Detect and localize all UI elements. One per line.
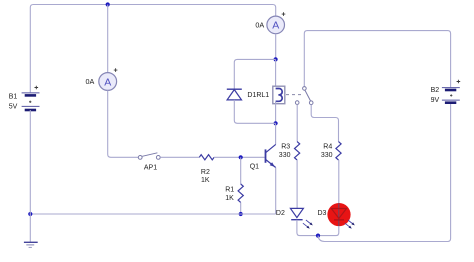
wire R4 to LED D3 [338,160,340,203]
resistor R2 1K [199,155,214,184]
wire coil bottom node to Q1 collector [275,123,277,144]
svg-text:R2: R2 [201,169,210,176]
LED D3 (lit red) [318,203,355,229]
wire ground rail [30,213,275,215]
svg-text:9V: 9V [431,97,440,104]
switch AP1 [138,153,160,172]
ammeter U1 (0A) [86,68,118,90]
node bottom junction [316,234,320,238]
svg-text:AP1: AP1 [144,165,157,172]
svg-text:B2: B2 [431,87,440,94]
svg-text:B1: B1 [9,93,18,100]
wire relay NO contact to resistor R4 [311,105,338,142]
resistor R4 330 [321,142,341,160]
svg-text:0A: 0A [255,20,264,29]
battery B1 5V [9,86,40,111]
svg-text:D3: D3 [318,210,327,217]
wire node to resistor R1 [240,157,242,184]
transistor Q1 [250,144,276,170]
svg-text:D1RL1: D1RL1 [247,92,269,99]
wire top rail from B1 to ammeter U2 [30,5,275,93]
node coil bottom junction [274,121,278,125]
node top rail junction [106,2,110,6]
svg-text:330: 330 [279,152,291,159]
resistor R1 1K [225,184,243,202]
node R1 bottom junction [239,212,243,216]
wire ammeter U2 bottom to coil node [275,34,277,60]
relay RL1 contact [286,87,313,105]
battery B2 9V [431,80,461,105]
svg-text:Q1: Q1 [250,164,259,171]
wire ammeter U1 bottom to switch AP1 [108,90,139,157]
wire junction to ammeter U1 top [107,5,109,73]
ammeter U2 (0A) [255,12,285,33]
wire Q1 emitter to ground rail [275,168,277,215]
svg-text:1K: 1K [225,195,234,202]
wire coil top node to diode D1 [234,59,275,89]
node base junction [239,155,243,159]
svg-text:R3: R3 [281,144,290,151]
wire D3 to bottom node [318,226,339,236]
wire bottom node to B2 negative [318,103,451,242]
wire coil to bottom node [275,101,277,123]
wire D2 to bottom node [297,220,318,236]
diode D1 [227,89,242,100]
wire switch AP1 to resistor R2 [160,156,199,158]
wire R3 to LED D2 [296,160,298,208]
svg-text:5V: 5V [9,103,18,110]
svg-text:0A: 0A [86,77,95,86]
wire B1 bottom to ground rail [29,110,31,214]
node coil top junction [274,57,278,61]
svg-text:D2: D2 [276,210,285,217]
wire R2 to node base [214,156,265,158]
LED D2 [276,208,313,228]
resistor R3 330 [279,142,300,160]
ground [24,214,38,247]
wire R1 to ground rail [240,202,242,214]
svg-text:A: A [104,76,111,88]
svg-text:R4: R4 [323,144,332,151]
svg-text:A: A [272,20,279,32]
svg-text:R1: R1 [225,187,234,194]
wire relay common to top rail to B2 [304,31,450,88]
wire relay NC contact to resistor R3 [296,105,298,142]
wire coil top node to coil [275,59,277,88]
svg-text:330: 330 [321,152,333,159]
relay RL1 coil [247,86,284,104]
wire diode D1 to coil bottom node [234,100,275,123]
node ground rail left junction [28,212,32,216]
svg-text:1K: 1K [201,177,210,184]
